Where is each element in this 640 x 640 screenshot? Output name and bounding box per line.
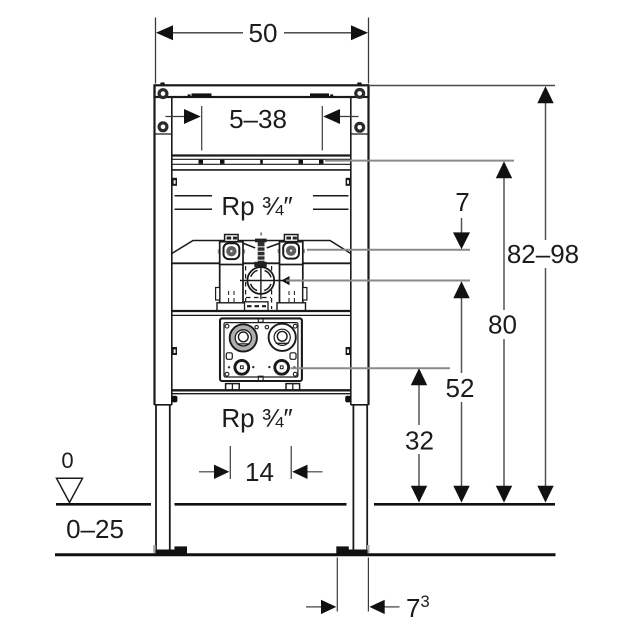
dimension 32 [418,383,420,488]
left supply pipe [216,263,243,311]
water line dashes left [175,196,349,210]
gray leader from drain [286,280,470,282]
pipe bottom flanges [217,303,246,311]
rail tabs [172,178,350,355]
zero line segments [56,503,555,506]
left fitting body [218,235,245,265]
right rail [367,85,369,405]
left leg [156,405,170,550]
dimension 82-98 [545,101,547,488]
box feet [226,384,300,390]
box screws [225,324,229,328]
middle rail above box [172,310,351,312]
svg-text:50: 50 [249,18,278,48]
connector left [235,360,249,374]
frame outer [155,85,369,405]
corner plate lines [156,133,172,135]
center rod [244,233,280,268]
gray leader from right connector (32) [291,367,451,369]
right leg [353,405,367,550]
right supply pipe [280,263,307,311]
connector flank dots [228,366,296,369]
dimension 5-38 [166,106,359,151]
gray leader mounting rail (80) [325,160,514,162]
right fitting body [278,235,305,265]
svg-text:52: 52 [446,373,475,403]
connector right [275,360,289,374]
svg-text:32: 32 [405,426,434,456]
big knob right [269,324,296,351]
dimension 52 [461,296,463,488]
dimension 50 top [156,18,369,84]
svg-text:7: 7 [406,593,420,623]
svg-text:Rp ¾″: Rp ¾″ [221,191,292,221]
drain circle [240,265,285,300]
top extension line 82-98 [370,85,555,87]
svg-text:7: 7 [455,187,469,217]
floor line [55,553,556,556]
datum triangle [57,478,83,502]
dimension 80 [503,176,505,488]
drain dashed pipe [246,266,272,309]
svg-text:5–38: 5–38 [229,104,287,134]
left foot [153,545,187,554]
dimension 7-3 bottom [306,558,400,612]
svg-text:14: 14 [245,457,274,487]
svg-text:Rp ¾″: Rp ¾″ [221,403,292,433]
svg-text:0–25: 0–25 [66,514,124,544]
svg-text:80: 80 [488,310,517,340]
mounting rail with slots [172,156,351,170]
clips under top bar [188,93,334,97]
svg-text:0: 0 [61,448,73,473]
gray leader from right fitting [307,249,470,251]
lower rail [172,389,351,391]
dimension 14 [199,446,323,479]
big knob left [230,324,257,351]
frame top bar [155,85,369,97]
right foot [336,545,369,554]
svg-text:82–98: 82–98 [507,239,579,269]
drain leader arrow [281,276,289,285]
top edge corner bumps [160,82,165,85]
svg-text:3: 3 [421,593,430,611]
left rail [153,85,155,405]
crossbar bracket [172,241,351,254]
mixer box [220,318,302,381]
screw top-left 1 [158,88,366,133]
leg adjust knobs [172,396,178,403]
